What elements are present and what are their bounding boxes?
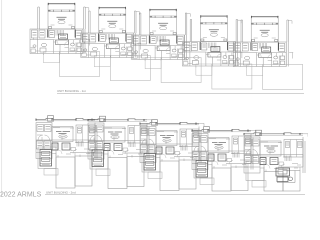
- bottom unit 2 patio B: [127, 157, 144, 187]
- bottom row unit 5: [244, 130, 308, 173]
- bottom unit 2 porch landing: [96, 169, 110, 176]
- bottom unit 5 porch: [246, 162, 264, 181]
- bottom unit 3 patio A: [160, 161, 179, 191]
- bottom unit 4 porch landing: [200, 178, 214, 185]
- bottom unit 5 patio B: [283, 171, 300, 192]
- top row unit 4: [182, 15, 242, 67]
- top unit 2 entry court: [94, 56, 110, 67]
- top unit 3 entry court: [145, 58, 161, 69]
- top unit 1 patio: [60, 52, 100, 77]
- top unit 5 entry court: [247, 65, 263, 76]
- bottom row unit 1: [36, 116, 100, 159]
- top unit 2 patio: [110, 56, 150, 81]
- svg-text:UNIT BUILDING - 2nd: UNIT BUILDING - 2nd: [46, 191, 76, 195]
- top row unit 1: [30, 3, 90, 55]
- bottom unit 4 patio B: [231, 167, 248, 191]
- bottom unit 4 grill: [196, 161, 208, 178]
- bottom unit 2 patio A: [108, 158, 127, 189]
- top unit 1 entry court: [44, 52, 60, 63]
- bottom unit 3 porch: [142, 151, 160, 172]
- top row unit 2: [81, 7, 141, 59]
- bottom row unit 3: [140, 120, 204, 163]
- svg-text:UNIT BUILDING - 1st: UNIT BUILDING - 1st: [57, 89, 86, 93]
- top unit 3 patio: [161, 58, 201, 83]
- bottom unit 2 grill: [92, 150, 104, 167]
- bottom unit 3 grill: [144, 154, 156, 171]
- bottom caption rule: [45, 194, 305, 196]
- bottom unit 1 patio A: [56, 157, 75, 188]
- bottom unit 5 patio A: [264, 172, 283, 192]
- top row unit 3: [132, 9, 192, 61]
- bottom unit 1 porch landing: [44, 169, 58, 176]
- top row unit 5: [233, 16, 293, 68]
- bottom unit 3 patio B: [179, 160, 196, 189]
- bottom unit 5 rear media fixture: [276, 168, 295, 183]
- bottom unit 2 porch: [90, 148, 108, 170]
- bottom unit 4 porch: [194, 158, 212, 178]
- top row caption rule: [57, 93, 304, 95]
- bottom row unit 2: [88, 116, 152, 159]
- bottom unit 4 patio A: [212, 168, 231, 191]
- bottom unit 3 porch landing: [148, 172, 162, 179]
- bottom unit 1 porch: [38, 147, 56, 169]
- bottom unit 5 porch landing: [252, 181, 266, 188]
- bottom unit 1 patio B: [75, 156, 92, 186]
- top unit 4 entry court: [196, 64, 212, 75]
- top unit 4 patio: [212, 64, 252, 89]
- sheet left edge line: [1, 0, 3, 197]
- bottom row unit 4: [192, 127, 256, 170]
- svg-text:2022 ARMLS: 2022 ARMLS: [0, 192, 42, 199]
- bottom unit 1 grill: [40, 150, 52, 167]
- top unit 5 patio: [263, 65, 303, 90]
